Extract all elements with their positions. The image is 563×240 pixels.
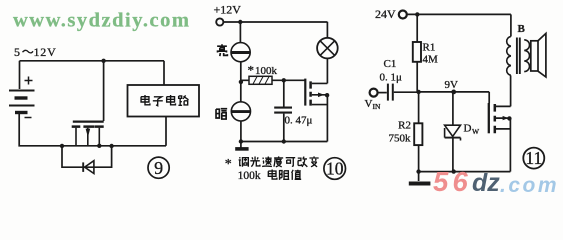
svg-text:.com: .com (500, 174, 559, 194)
transformer B primary (507, 37, 511, 76)
wire R2 top lead (418, 92, 420, 123)
wire bottom rail circuit 10 (241, 141, 328, 143)
label *100k (248, 63, 278, 78)
label +12V (214, 3, 242, 17)
svg-text:11: 11 (525, 148, 542, 168)
label circled 9 (148, 157, 169, 178)
label Vin (365, 98, 381, 111)
svg-text:56: 56 (433, 166, 472, 194)
note line 1 (225, 157, 232, 172)
transistor V3 MOSFET (489, 103, 511, 133)
label dian-zi-dian-lu (141, 95, 188, 106)
label 24V (375, 7, 396, 21)
wire bottom rail circuit 9 (62, 145, 166, 147)
watermark 56dz.com (433, 166, 559, 197)
label R1 4M (423, 42, 439, 66)
wire diode loop (62, 146, 112, 167)
node junction dots rail 10 (239, 139, 243, 143)
ground (409, 172, 431, 184)
svg-text:W: W (472, 127, 480, 136)
svg-text:5: 5 (14, 45, 20, 59)
terminal +12V (216, 18, 223, 25)
transformer core (517, 38, 520, 75)
svg-text:100k: 100k (238, 170, 261, 182)
svg-text:R1: R1 (423, 42, 436, 54)
svg-text:100k: 100k (255, 65, 278, 77)
svg-text:V: V (365, 98, 373, 110)
wire to bright pad (239, 22, 241, 43)
wire source to rail (509, 118, 511, 171)
svg-text:750k: 750k (389, 133, 412, 145)
label an (216, 109, 227, 119)
svg-text:0. 1μ: 0. 1μ (380, 72, 403, 84)
wire R1 bottom to 9V node (416, 62, 418, 92)
touch pad dark (231, 102, 250, 121)
wire drain to transformer (510, 75, 512, 106)
svg-text:D: D (464, 123, 472, 135)
svg-text:B: B (518, 23, 526, 35)
node body dot (325, 93, 329, 97)
svg-text:*: * (225, 157, 232, 172)
zener diode Dw (445, 92, 461, 172)
wire gate lead (103, 61, 105, 121)
svg-text:9: 9 (154, 158, 163, 178)
wire drain to lamp (326, 59, 328, 84)
node junction dots 9V (416, 90, 420, 94)
wire box bottom lead (165, 117, 167, 146)
resistor R1 (413, 42, 421, 62)
wire battery top lead (19, 61, 21, 89)
svg-text:dz: dz (472, 169, 500, 194)
wire bright to dark pad (240, 62, 242, 102)
terminal 24V (399, 11, 407, 19)
wire source to rail (326, 95, 328, 141)
resistor 100k (249, 76, 272, 84)
node junction dot top (101, 59, 105, 63)
ground bar (235, 142, 248, 149)
capacitor C1 (378, 84, 419, 101)
label liang (217, 44, 227, 56)
node junction dots rail (60, 144, 64, 148)
node junction dot R1 top (415, 12, 419, 16)
label C1 0.1u (380, 58, 403, 84)
transistor V2 MOSFET (305, 79, 327, 106)
svg-text:10: 10 (326, 158, 344, 178)
wire 9V node rail (419, 91, 490, 93)
wire gate lead 11 (488, 92, 490, 103)
label 9V (445, 79, 459, 91)
label R2 750k (389, 120, 412, 145)
wire transformer top lead (510, 14, 512, 36)
box electronic-circuit load (128, 85, 200, 117)
note line 2 (238, 170, 261, 182)
node body dot 11 (507, 116, 511, 120)
svg-text:C1: C1 (384, 58, 397, 70)
label B (518, 23, 526, 35)
wire lamp top lead (326, 22, 328, 38)
label circled 10 (324, 158, 346, 180)
lamp EL (317, 38, 338, 59)
label 5~12V (14, 45, 57, 59)
svg-text:0. 47μ: 0. 47μ (285, 115, 313, 127)
wire R1 top lead (416, 14, 418, 42)
wire bottom rail circuit 11 (419, 171, 511, 173)
svg-text:24V: 24V (375, 7, 396, 21)
wire top rail circuit 9 (20, 60, 165, 62)
svg-text:4M: 4M (423, 54, 439, 66)
resistor R2 (414, 123, 422, 145)
battery B (9, 77, 35, 118)
svg-text:R2: R2 (398, 120, 411, 132)
svg-text:*: * (248, 63, 255, 78)
speaker BL (531, 33, 546, 77)
wire top rail circuit 11 (407, 13, 511, 15)
node capacitor tap dot (282, 78, 286, 82)
label circled 11 (523, 148, 544, 169)
wire R2 bottom lead (418, 145, 420, 172)
svg-text:+12V: +12V (214, 3, 242, 17)
transformer B secondary (524, 40, 529, 72)
label Dw (464, 123, 481, 137)
node junction dot divider (239, 80, 243, 84)
diode VD (83, 161, 94, 174)
node junction dot (238, 20, 242, 24)
transistor V1 MOSFET (72, 122, 104, 146)
touch pad bright (231, 43, 250, 62)
svg-text:www.sydzdiy.com: www.sydzdiy.com (13, 10, 190, 32)
node junction dots rail 11 (416, 169, 420, 173)
wire top rail circuit 10 (224, 21, 328, 23)
svg-text:9V: 9V (445, 79, 459, 91)
label 0.47u (285, 115, 313, 127)
wire battery negative to rail (19, 113, 62, 146)
svg-text:IN: IN (373, 102, 381, 111)
svg-text:12V: 12V (34, 45, 57, 59)
wire dark pad to rail (240, 121, 242, 142)
terminal Vin (370, 89, 378, 97)
capacitor 0.47u (274, 80, 292, 141)
wire box top lead (163, 61, 165, 85)
wire gate node (241, 79, 305, 81)
